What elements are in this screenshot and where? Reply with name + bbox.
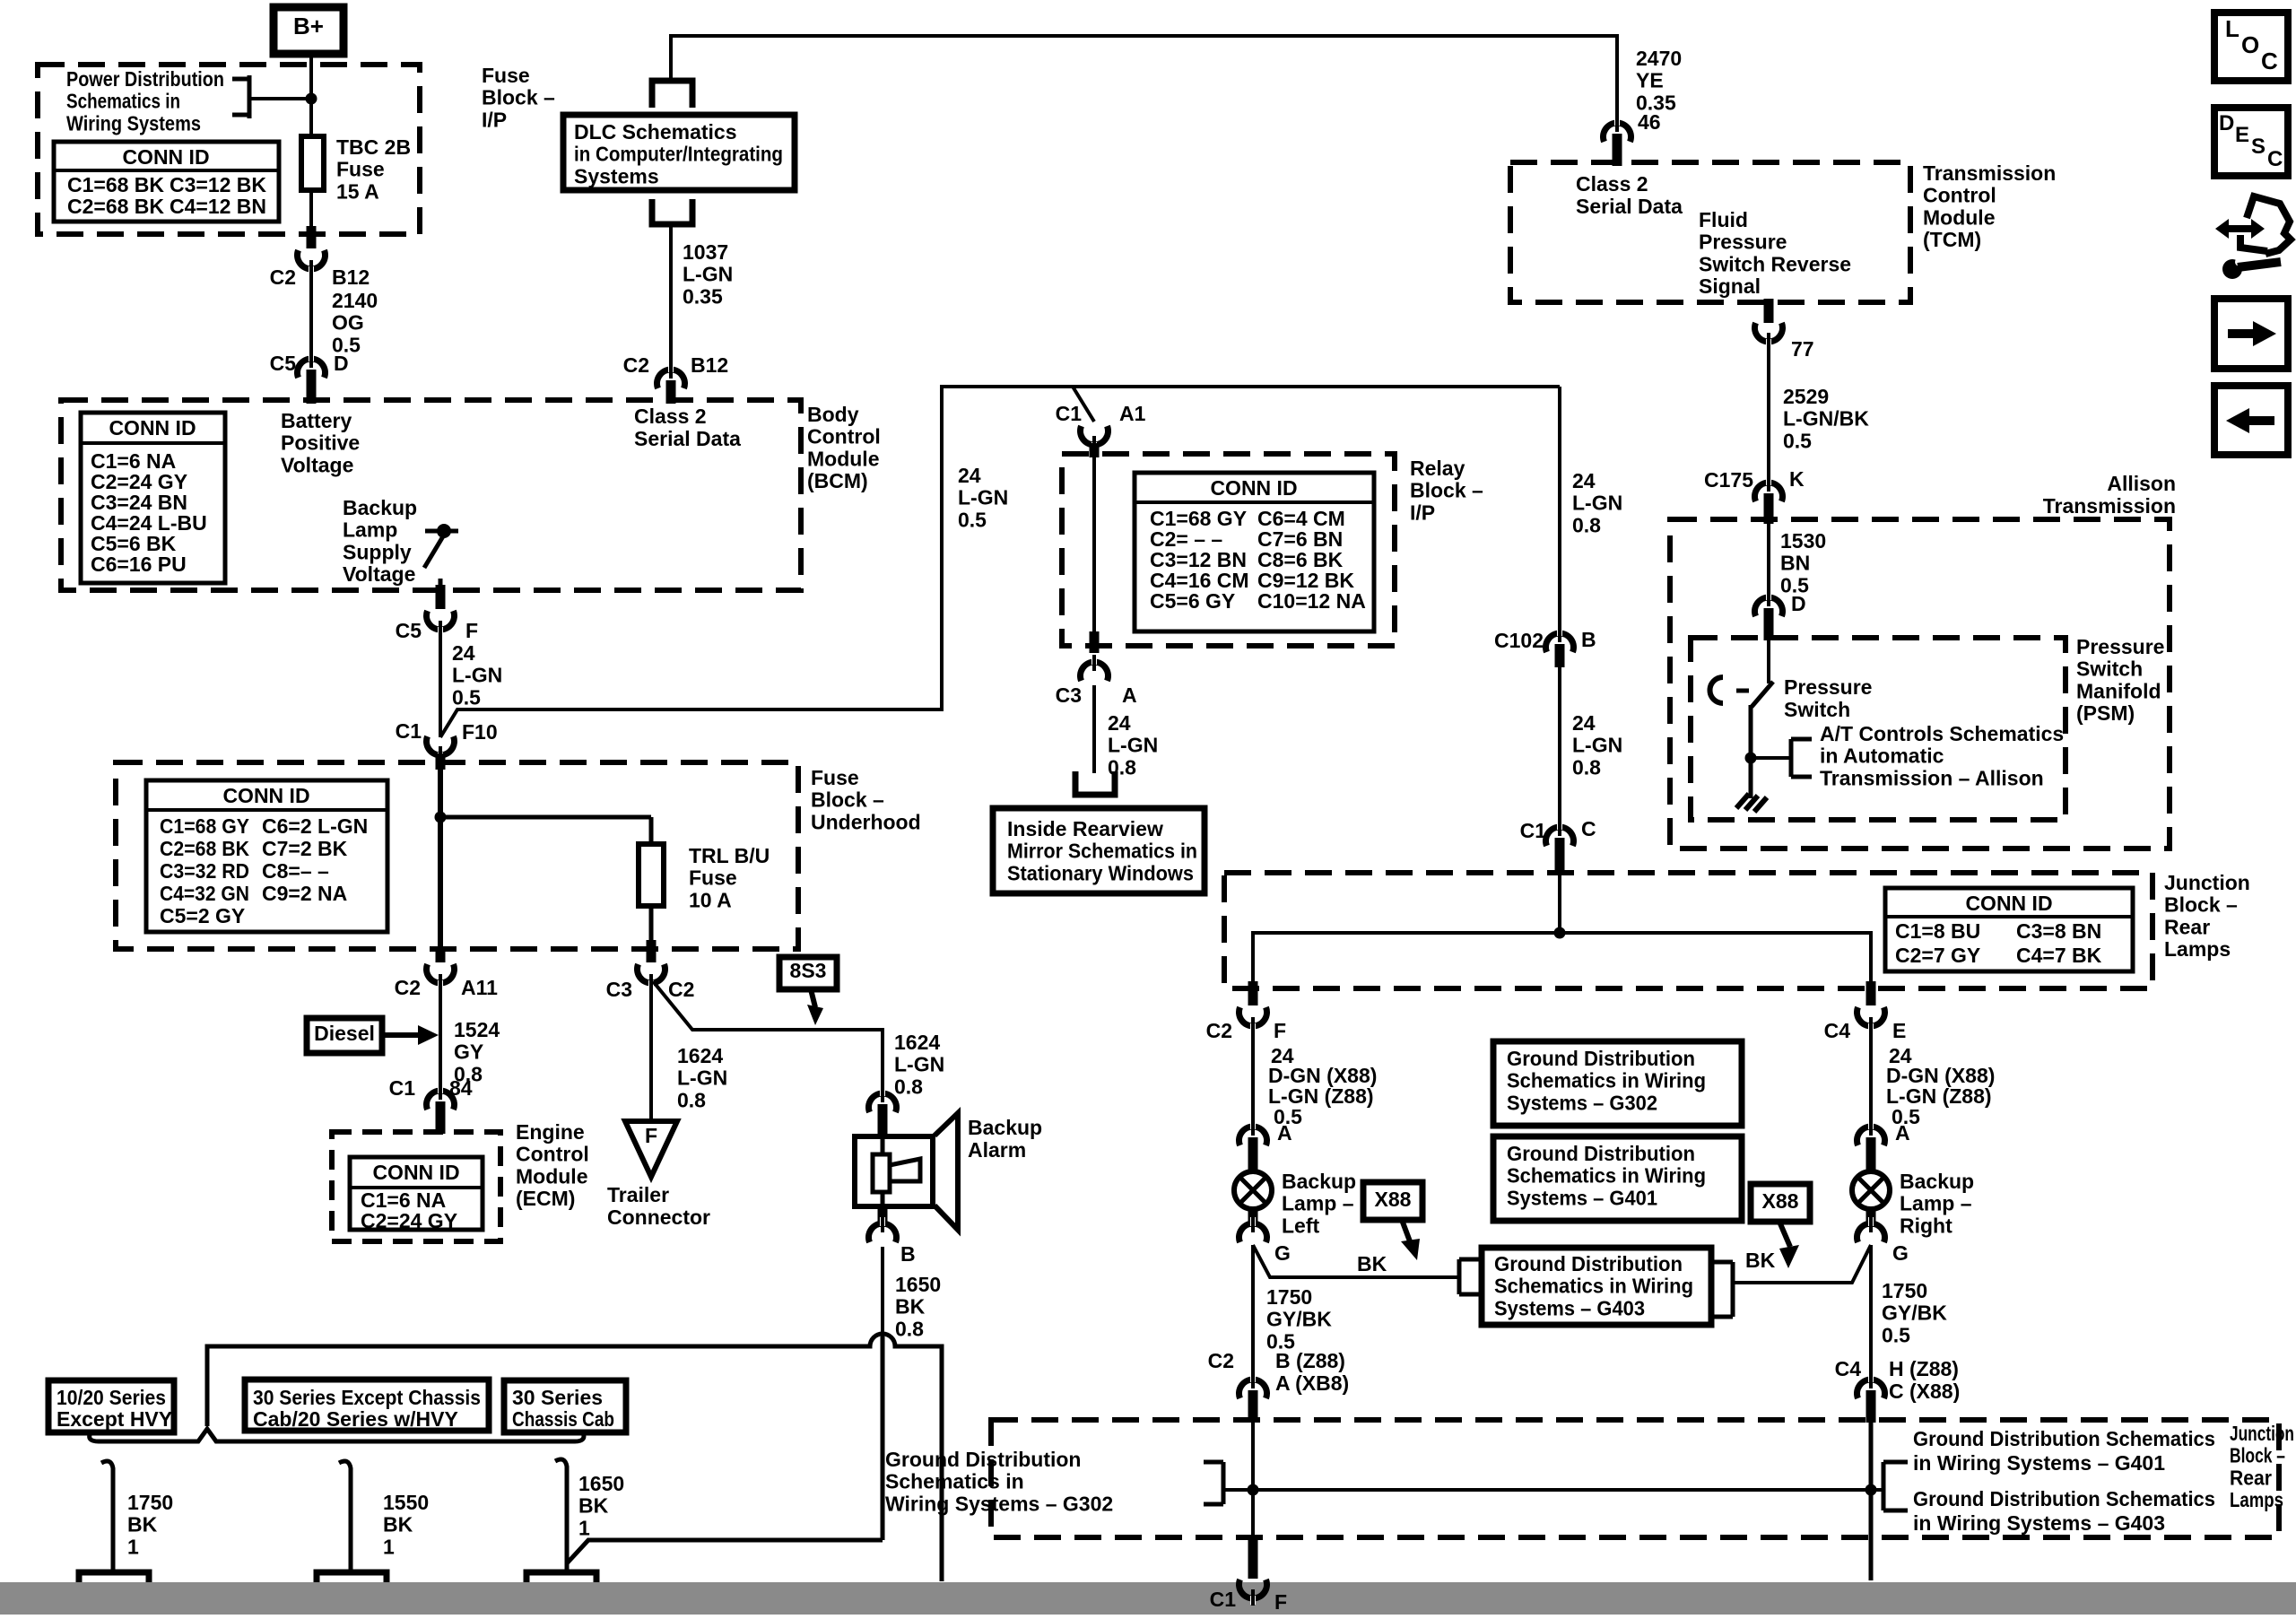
svg-text:in Wiring Systems – G401: in Wiring Systems – G401 [1913, 1451, 2165, 1475]
callout Diesel box [307, 1018, 382, 1053]
label circuit 2140 OG 0.5 [332, 289, 378, 356]
label circuit 24 D-GN X88 L-GN Z88 0.5 left [1268, 1044, 1377, 1128]
svg-text:C5: C5 [396, 619, 422, 642]
icon next arrow box [2214, 299, 2288, 369]
label Fuse Block - I/P [482, 64, 555, 131]
box option 30 Series Chassis Cab [504, 1380, 626, 1432]
svg-text:C4=7 BK: C4=7 BK [2016, 944, 2102, 967]
svg-text:C: C [2267, 147, 2283, 171]
wire BK branch right to G403 [1735, 1245, 1871, 1283]
label A/T Controls Schematics in Automatic Transmission - Allison [1820, 722, 2064, 789]
svg-text:OG: OG [332, 311, 364, 335]
label TBC 2B Fuse 15 A [336, 135, 411, 203]
module Junction Block - Rear Lamps lower dashed box [991, 1420, 2279, 1537]
svg-text:GY/BK: GY/BK [1882, 1301, 1947, 1325]
icon LOC box [2214, 13, 2288, 81]
svg-text:Ground Distribution: Ground Distribution [1507, 1142, 1695, 1165]
svg-text:2140: 2140 [332, 289, 378, 312]
svg-text:10 A: 10 A [689, 888, 732, 911]
wire junction rail [1253, 875, 1871, 983]
half-box connector above mirror box [1075, 771, 1115, 795]
wire fuse to connector C2 [309, 190, 313, 230]
wire 1550 BK 1 drop [339, 1461, 351, 1583]
svg-text:G: G [1892, 1241, 1909, 1265]
connector C1/A1 into relay block [1073, 387, 1109, 457]
module Engine Control Module dashed box [332, 1132, 500, 1241]
svg-text:C6=16 PU: C6=16 PU [91, 553, 187, 576]
svg-text:Wiring Systems – G302: Wiring Systems – G302 [885, 1492, 1113, 1515]
wire 1530 BN [1767, 524, 1770, 603]
label C3 A [1056, 683, 1137, 707]
svg-text:BK: BK [578, 1494, 609, 1518]
svg-text:Schematics in: Schematics in [66, 90, 180, 113]
svg-text:Alarm: Alarm [968, 1138, 1026, 1162]
box DLC Schematics in Computer/Integrating Systems [563, 115, 795, 190]
svg-text:Block –: Block – [482, 86, 555, 109]
svg-text:C1: C1 [389, 1076, 416, 1100]
svg-text:C1=8 BU: C1=8 BU [1895, 919, 1980, 943]
svg-text:46: 46 [1638, 110, 1661, 134]
label pin 77 [1791, 337, 1814, 361]
connector C102/B [1546, 626, 1574, 667]
node underhood tap [435, 812, 652, 845]
svg-text:Relay: Relay [1410, 457, 1465, 480]
wire 1624 branch to backup alarm [653, 981, 883, 1100]
node ground rail left [1248, 1484, 1259, 1496]
svg-text:Underhood: Underhood [811, 810, 921, 833]
svg-text:0.8: 0.8 [1572, 755, 1601, 779]
svg-text:Inside Rearview: Inside Rearview [1007, 817, 1163, 840]
svg-text:1530: 1530 [1780, 529, 1826, 553]
connector pin G right lamp [1857, 1208, 1885, 1242]
node junction rail tap [1554, 927, 1566, 939]
svg-text:0.8: 0.8 [894, 1075, 923, 1098]
svg-text:Ground Distribution: Ground Distribution [885, 1448, 1081, 1471]
svg-text:C5=6 GY: C5=6 GY [1150, 589, 1235, 613]
svg-text:Junction: Junction [2230, 1422, 2294, 1445]
svg-text:TBC 2B: TBC 2B [336, 135, 411, 159]
svg-text:(ECM): (ECM) [516, 1187, 575, 1210]
connector pin 77 TCM output [1755, 299, 1783, 349]
label circuit 1650 BK 1 [578, 1472, 624, 1539]
connector pin A left lamp [1239, 1119, 1267, 1172]
brace option selector [90, 1429, 584, 1441]
svg-text:1624: 1624 [894, 1031, 940, 1054]
svg-text:Rear: Rear [2164, 915, 2210, 938]
svg-text:24: 24 [452, 641, 475, 665]
box Ground Distribution G401 [1493, 1136, 1742, 1221]
connector C1/C into junction block [1546, 820, 1574, 875]
lamp Backup Lamp Right bulb [1852, 1171, 1890, 1209]
switch pressure switch blade [1752, 682, 1773, 707]
svg-text:C2=24 GY: C2=24 GY [361, 1209, 457, 1232]
svg-text:0.5: 0.5 [958, 508, 987, 531]
connector C2/A11 underhood output [427, 947, 455, 990]
fuse TRL B/U 10 A [639, 844, 664, 906]
svg-text:C1=68 GY: C1=68 GY [160, 814, 249, 838]
svg-text:K: K [1789, 467, 1805, 491]
label circuit 24 L-GN 0.5 riser [958, 464, 1008, 531]
svg-text:Systems: Systems [574, 164, 659, 187]
connector C2/B12 fuse block output [298, 226, 326, 276]
svg-text:L-GN: L-GN [683, 263, 733, 286]
svg-text:Except HVY: Except HVY [57, 1407, 172, 1431]
svg-text:X88: X88 [1762, 1189, 1799, 1213]
svg-text:Module: Module [1923, 205, 1996, 229]
svg-text:Systems – G403: Systems – G403 [1494, 1296, 1645, 1319]
label circuit 1624 L-GN 0.8 trailer [677, 1044, 727, 1111]
label pin B [900, 1242, 916, 1266]
svg-text:Ground Distribution: Ground Distribution [1494, 1252, 1683, 1275]
svg-text:1: 1 [578, 1516, 590, 1539]
svg-text:24: 24 [1108, 711, 1131, 735]
label BK left [1357, 1252, 1387, 1275]
svg-text:Fluid: Fluid [1699, 208, 1748, 231]
svg-text:H (Z88): H (Z88) [1889, 1357, 1959, 1380]
svg-text:Switch: Switch [2076, 657, 2143, 681]
label pin A right [1895, 1121, 1910, 1145]
svg-text:F: F [1274, 1590, 1287, 1614]
wire ground rail [1253, 1488, 1871, 1492]
svg-text:Transmission: Transmission [1923, 161, 2056, 185]
label Pressure Switch [1784, 675, 1872, 721]
svg-text:G: G [1274, 1241, 1291, 1265]
icon wrench with arrows [2215, 196, 2291, 279]
label Junction Block - Rear Lamps upper [2164, 871, 2250, 961]
svg-text:C2: C2 [1206, 1019, 1232, 1042]
svg-text:0.8: 0.8 [895, 1317, 924, 1340]
module Junction Block - Rear Lamps upper dashed box [1224, 873, 2152, 988]
svg-text:S: S [2251, 135, 2266, 159]
label pin 46 [1638, 110, 1661, 134]
svg-text:Ground Distribution: Ground Distribution [1507, 1047, 1695, 1070]
label C2 B12 DLC [623, 353, 729, 377]
connector C175/K [1755, 475, 1783, 524]
svg-text:Backup: Backup [343, 496, 417, 519]
svg-text:Fuse: Fuse [811, 766, 859, 789]
svg-text:Body: Body [807, 403, 859, 426]
label circuit 2529 L-GN/BK 0.5 [1783, 385, 1869, 452]
svg-text:2529: 2529 [1783, 385, 1829, 408]
table CONN ID underhood [146, 780, 387, 932]
svg-text:Junction: Junction [2164, 871, 2250, 894]
svg-text:F10: F10 [462, 720, 498, 744]
svg-text:Schematics in Wiring: Schematics in Wiring [1507, 1069, 1706, 1092]
svg-text:8S3: 8S3 [790, 959, 827, 982]
svg-text:C3=12 BK: C3=12 BK [170, 173, 266, 196]
svg-text:24: 24 [1572, 469, 1596, 492]
label C2 A11 [395, 976, 499, 999]
svg-text:Systems – G401: Systems – G401 [1507, 1186, 1657, 1209]
wire through relay block [1092, 456, 1096, 633]
svg-text:Rear: Rear [2230, 1466, 2272, 1489]
svg-text:C175: C175 [1704, 468, 1753, 492]
svg-text:A: A [1277, 1121, 1292, 1145]
svg-text:CONN ID: CONN ID [1210, 476, 1297, 500]
label C4 E right [1824, 1019, 1907, 1042]
svg-text:B: B [900, 1242, 916, 1266]
connector C2/F left lamp [1239, 981, 1267, 1033]
label C102 B [1494, 628, 1596, 652]
svg-text:BN: BN [1780, 552, 1810, 575]
svg-text:C1: C1 [1210, 1588, 1237, 1611]
label C1 F bottom [1210, 1588, 1287, 1614]
svg-text:Serial Data: Serial Data [634, 427, 741, 450]
svg-text:in Wiring Systems – G403: in Wiring Systems – G403 [1913, 1511, 2165, 1535]
svg-text:0.8: 0.8 [1572, 513, 1601, 536]
svg-text:Positive: Positive [281, 431, 360, 455]
connector pin 46 into TCM [1604, 116, 1631, 166]
svg-text:Connector: Connector [607, 1206, 710, 1229]
label circuit 24 D-GN X88 L-GN Z88 0.5 right [1886, 1044, 1995, 1128]
svg-text:C1=68 BK: C1=68 BK [67, 173, 164, 196]
module Body Control Module dashed box [61, 400, 801, 590]
connector C4 into junction block lower right [1857, 1372, 1885, 1423]
label C2 B Z88 A XB8 [1208, 1349, 1350, 1395]
switch backup lamp supply inside BCM [424, 524, 458, 592]
svg-text:C1: C1 [1056, 402, 1083, 425]
wire option rail with hop over alarm wire [207, 1334, 942, 1581]
label Pressure Switch Manifold (PSM) [2076, 635, 2164, 725]
svg-text:C2: C2 [270, 265, 296, 289]
svg-text:C4: C4 [1835, 1357, 1862, 1380]
svg-text:F: F [645, 1124, 657, 1147]
wire 2529 L-GN/BK [1767, 343, 1770, 492]
svg-text:F: F [465, 619, 478, 642]
module Pressure Switch Manifold dashed box [1691, 638, 2066, 820]
node junction on B+ wire [306, 93, 317, 105]
wire left lamp feed [1251, 1026, 1255, 1136]
label circuit 1530 BN 0.5 [1780, 529, 1826, 596]
svg-text:Manifold: Manifold [2076, 679, 2161, 702]
svg-text:C3=8 BN: C3=8 BN [2016, 919, 2101, 943]
svg-text:0.5: 0.5 [1882, 1323, 1910, 1346]
svg-text:Fuse: Fuse [482, 64, 530, 87]
wire 1750 GY/BK right [1869, 1245, 1873, 1388]
label Ground Distribution Schematics in Wiring Systems - G302 [885, 1448, 1113, 1515]
svg-text:Transmission – Allison: Transmission – Allison [1820, 766, 2044, 789]
svg-text:C: C [2261, 48, 2278, 74]
label circuit 1524 GY 0.8 [454, 1018, 500, 1085]
svg-text:30 Series: 30 Series [512, 1386, 603, 1409]
table CONN ID relay block [1135, 473, 1374, 631]
component Backup Alarm speaker [855, 1113, 958, 1230]
svg-text:1650: 1650 [895, 1273, 941, 1296]
wire 2140 OG [309, 269, 313, 368]
label circuit 24 L-GN 0.8 upper [1572, 469, 1622, 536]
box option 10/20 Series Except HVY [48, 1380, 174, 1432]
bracket A/T controls schematics [1791, 739, 1812, 777]
svg-text:1624: 1624 [677, 1044, 723, 1067]
wire branch riser to relay feed [440, 387, 1560, 737]
svg-text:Control: Control [1923, 184, 1996, 207]
svg-text:Lamp: Lamp [343, 518, 397, 542]
svg-text:Mirror Schematics in: Mirror Schematics in [1007, 840, 1197, 863]
svg-text:Lamps: Lamps [2230, 1488, 2283, 1511]
fuse TBC 2B 15 A [301, 136, 324, 190]
svg-text:Voltage: Voltage [343, 562, 415, 586]
callout X88 left box [1363, 1182, 1422, 1220]
svg-text:CONN ID: CONN ID [372, 1161, 459, 1184]
svg-text:L: L [2225, 15, 2239, 42]
svg-text:C: C [1581, 817, 1596, 840]
svg-text:Switch: Switch [1784, 698, 1850, 721]
svg-text:Class 2: Class 2 [1576, 172, 1648, 196]
svg-text:Supply: Supply [343, 540, 412, 563]
svg-text:Backup: Backup [1900, 1170, 1974, 1193]
wire 24 L-GN 0.5 [439, 630, 442, 737]
svg-text:A1: A1 [1119, 402, 1146, 425]
label C2 F left [1206, 1019, 1286, 1042]
svg-text:C10=12 NA: C10=12 NA [1257, 589, 1366, 613]
bracket right to G403 [1713, 1262, 1733, 1317]
box Ground Distribution G403 [1482, 1248, 1711, 1325]
svg-text:E: E [2235, 123, 2249, 147]
arrow 8S3 pointer [807, 989, 823, 1025]
svg-text:L-GN: L-GN [1572, 492, 1622, 515]
svg-text:Pressure: Pressure [1784, 675, 1872, 699]
svg-text:B12: B12 [332, 265, 370, 289]
module Transmission Control Module dashed box [1510, 162, 1910, 302]
wire BK branch left to G403 [1253, 1245, 1459, 1277]
svg-text:C8=– –: C8=– – [262, 859, 329, 883]
label Class 2 Serial Data TCM [1576, 172, 1683, 218]
svg-text:1750: 1750 [1882, 1279, 1927, 1302]
lamp Backup Lamp Left bulb [1234, 1171, 1272, 1209]
label Transmission Control Module (TCM) [1923, 161, 2056, 251]
svg-text:Lamps: Lamps [2164, 937, 2231, 961]
svg-text:Right: Right [1900, 1214, 1952, 1237]
svg-text:2470: 2470 [1636, 47, 1682, 70]
label Ground Distribution Schematics G401 [1913, 1427, 2215, 1475]
wire 1524 GY [439, 983, 442, 1100]
svg-text:Wiring Systems: Wiring Systems [66, 111, 201, 135]
svg-text:Control: Control [807, 425, 881, 448]
wire into pressure switch [1767, 640, 1770, 683]
label Backup Lamp - Left [1282, 1170, 1356, 1237]
svg-text:YE: YE [1636, 69, 1664, 92]
svg-text:D: D [334, 352, 349, 375]
connector backup alarm B [869, 1209, 897, 1242]
svg-text:C2: C2 [395, 976, 421, 999]
svg-text:C9=2 NA: C9=2 NA [262, 882, 347, 905]
table CONN ID fuse block IP [54, 142, 279, 222]
svg-text:1650: 1650 [578, 1472, 624, 1495]
svg-text:C7=2 BK: C7=2 BK [262, 837, 348, 860]
label Backup Alarm [968, 1116, 1042, 1162]
label BK right [1745, 1249, 1776, 1272]
module Fuse Block - I/P dashed box [38, 65, 420, 234]
wire TRL fuse down [649, 906, 654, 947]
svg-text:I/P: I/P [1410, 500, 1435, 524]
icon prev arrow box [2214, 386, 2288, 455]
module Fuse Block - Underhood dashed box [116, 762, 798, 949]
node ground rail right [1865, 1484, 1877, 1496]
label circuit 1624 L-GN 0.8 alarm [894, 1031, 944, 1098]
table CONN ID BCM [81, 413, 225, 583]
label C175 K [1704, 467, 1805, 492]
svg-text:D: D [1791, 592, 1806, 615]
connector C5/D into BCM [298, 352, 326, 404]
svg-text:B: B [1581, 628, 1596, 651]
connector pin G left lamp [1239, 1208, 1267, 1242]
svg-text:Engine: Engine [516, 1120, 585, 1144]
svg-text:Block –: Block – [811, 788, 884, 812]
connector pin A right lamp [1857, 1119, 1885, 1172]
label Allison Transmission [2043, 472, 2176, 518]
svg-text:DLC Schematics: DLC Schematics [574, 120, 737, 144]
svg-text:O: O [2241, 31, 2259, 58]
label Body Control Module (BCM) [807, 403, 881, 492]
battery feed B+ box [274, 7, 344, 54]
svg-text:L-GN: L-GN [452, 664, 502, 687]
wire right lamp ground through junction [1869, 1423, 1874, 1580]
wire B+ to fuse [309, 54, 313, 136]
label circuit 24 L-GN 0.8 mirror [1108, 711, 1158, 779]
wire top rail DLC to TCM [671, 36, 1617, 130]
wire 1650 BK 1 drop [555, 1459, 567, 1583]
wire left lamp ground through junction [1251, 1423, 1255, 1539]
svg-text:CONN ID: CONN ID [222, 784, 309, 807]
svg-text:CONN ID: CONN ID [1965, 892, 2052, 915]
svg-text:Diesel: Diesel [314, 1022, 375, 1045]
svg-text:C2=68 BK: C2=68 BK [67, 195, 164, 218]
ground chassis ground PSM [1736, 794, 1767, 812]
footer gray bar [0, 1582, 2296, 1615]
svg-text:Voltage: Voltage [281, 453, 353, 476]
trailer connector F triangle [625, 1121, 677, 1177]
label TRL B/U Fuse 10 A [689, 844, 770, 911]
label pin G left [1274, 1241, 1291, 1265]
svg-text:L-GN/BK: L-GN/BK [1783, 407, 1869, 431]
svg-text:BK: BK [127, 1513, 158, 1536]
connector C4/E right lamp [1857, 981, 1885, 1033]
svg-text:C4=32 GN: C4=32 GN [160, 882, 249, 905]
svg-text:1750: 1750 [1266, 1285, 1312, 1309]
svg-text:Block –: Block – [1410, 479, 1483, 502]
svg-text:0.5: 0.5 [1783, 429, 1812, 452]
wire 24 L-GN 0.8 down right [1558, 387, 1561, 640]
label circuit 1550 BK 1 [383, 1491, 429, 1558]
svg-text:L-GN: L-GN [958, 486, 1008, 509]
module Allison Transmission dashed box [1670, 519, 2170, 849]
svg-text:C3: C3 [1056, 683, 1082, 707]
label C1 F10 [396, 719, 498, 744]
svg-text:Allison: Allison [2107, 472, 2176, 495]
box option 30 Series Except Chassis Cab [245, 1380, 489, 1431]
wire 1037 L-GN [669, 224, 673, 377]
svg-text:C102: C102 [1494, 629, 1544, 652]
svg-text:L-GN: L-GN [1572, 734, 1622, 757]
label circuit 1750 BK 1 [127, 1491, 173, 1558]
arrow X88 right pointer [1779, 1222, 1799, 1268]
svg-text:BK: BK [1745, 1249, 1776, 1272]
bracket G401 G403 right [1871, 1462, 1908, 1510]
label C1 A1 [1056, 402, 1146, 425]
label Backup Lamp Supply Voltage [343, 496, 417, 586]
svg-text:A: A [1122, 683, 1137, 707]
connector C3/C2 fork [638, 940, 665, 990]
switch pressure switch fixed contact [1710, 677, 1750, 703]
label Backup Lamp - Right [1900, 1170, 1974, 1237]
svg-text:L-GN: L-GN [894, 1053, 944, 1076]
wire 1624 L-GN to trailer connector [649, 983, 653, 1121]
svg-text:in Automatic: in Automatic [1820, 744, 1944, 768]
wire pressure switch to ground [1749, 705, 1753, 798]
bracket G302 left [1204, 1462, 1253, 1504]
arrow Diesel pointer [382, 1025, 439, 1045]
svg-text:24: 24 [958, 464, 981, 487]
